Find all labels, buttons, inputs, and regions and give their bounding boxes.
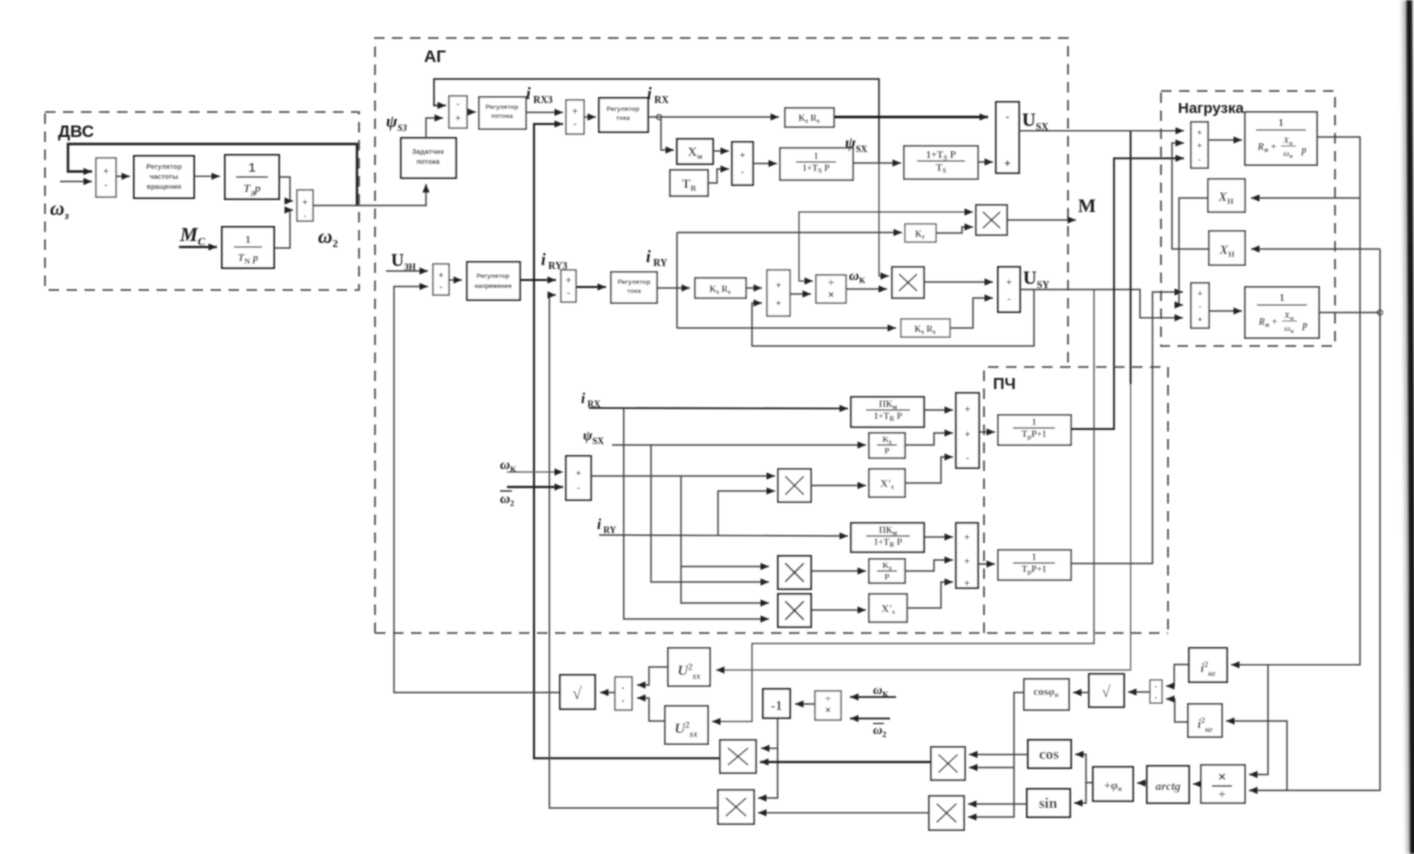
svg-text:p: p [1302, 320, 1308, 331]
svg-text:√: √ [572, 684, 582, 703]
svg-text:+: + [965, 429, 970, 439]
svg-text:1: 1 [1032, 417, 1037, 427]
svg-text:×: × [1218, 769, 1226, 784]
svg-text:+: + [302, 197, 307, 207]
svg-text:ПЧ: ПЧ [993, 376, 1016, 393]
svg-text:потока: потока [416, 159, 439, 166]
svg-text:×: × [825, 705, 830, 715]
svg-text:потока: потока [491, 113, 513, 120]
svg-text:-: - [567, 288, 570, 298]
svg-text:1: 1 [814, 151, 819, 161]
svg-text:напряжения: напряжения [474, 283, 512, 290]
svg-text:+: + [103, 166, 108, 176]
svg-text:ДВС: ДВС [58, 122, 94, 141]
svg-text:-: - [1008, 294, 1011, 304]
svg-text:-: - [966, 453, 969, 463]
svg-text:M: M [1078, 196, 1096, 217]
svg-text:вращения: вращения [147, 184, 182, 191]
svg-text:+: + [740, 150, 745, 160]
svg-text:тока: тока [627, 288, 641, 295]
svg-text:Нагрузка: Нагрузка [1178, 100, 1244, 117]
svg-text:+: + [776, 280, 781, 290]
svg-text:÷: ÷ [1219, 789, 1225, 801]
svg-text:-: - [457, 99, 460, 109]
svg-text:1: 1 [248, 160, 255, 175]
svg-text:1: 1 [1032, 552, 1037, 562]
svg-text:+: + [964, 556, 969, 566]
svg-text:Регулятор: Регулятор [146, 164, 182, 171]
svg-text:+: + [964, 532, 969, 542]
svg-text:1: 1 [245, 234, 251, 246]
svg-text:·: · [622, 683, 626, 695]
svg-text:.: . [304, 209, 307, 219]
svg-text:·: · [1154, 693, 1157, 704]
svg-text:+: + [1004, 158, 1010, 170]
svg-text:+: + [1197, 141, 1202, 150]
svg-text:1: 1 [1278, 117, 1284, 129]
svg-text:+: + [572, 106, 577, 116]
svg-text:+: + [576, 468, 581, 478]
svg-text:частоты: частоты [150, 174, 179, 181]
svg-text:arctg: arctg [1155, 779, 1180, 793]
svg-text:1: 1 [1279, 292, 1285, 304]
svg-text:+: + [965, 404, 970, 414]
svg-text:-: - [577, 483, 580, 493]
svg-text:P: P [884, 446, 889, 456]
svg-text:+: + [455, 113, 460, 123]
svg-text:+: + [438, 270, 443, 280]
svg-text:÷: ÷ [828, 278, 834, 289]
svg-text:-: - [440, 282, 443, 292]
svg-text:Регулятор: Регулятор [607, 106, 640, 113]
svg-text:+: + [1198, 289, 1203, 298]
svg-text:·: · [1154, 682, 1157, 693]
svg-text:Задатчик: Задатчик [412, 149, 444, 156]
svg-text:×: × [828, 290, 834, 301]
svg-text:-: - [741, 167, 744, 177]
svg-text:-: - [1006, 111, 1010, 123]
svg-text:тока: тока [616, 115, 630, 122]
svg-text:·: · [622, 696, 626, 708]
svg-text:cos: cos [1039, 747, 1059, 763]
svg-text:-1: -1 [771, 699, 783, 714]
svg-text:sin: sin [1039, 796, 1058, 812]
svg-text:+: + [1197, 128, 1202, 137]
svg-text:+: + [1006, 277, 1011, 287]
svg-text:-: - [105, 180, 108, 190]
svg-text:+: + [964, 578, 969, 588]
svg-text:-: - [574, 119, 577, 129]
svg-text:+: + [1198, 315, 1203, 324]
svg-text:АГ: АГ [424, 47, 446, 66]
svg-text:p: p [1301, 145, 1307, 156]
svg-text:+: + [566, 275, 571, 285]
svg-text:1+TS P: 1+TS P [926, 150, 956, 162]
svg-text:-: - [1198, 155, 1201, 164]
svg-text:P: P [884, 572, 889, 582]
svg-text:-: - [1199, 302, 1202, 311]
svg-text:+: + [776, 298, 781, 308]
svg-text:Регулятор: Регулятор [477, 273, 510, 280]
svg-text:√: √ [1102, 684, 1111, 701]
svg-text:Регулятор: Регулятор [486, 104, 519, 111]
svg-text:÷: ÷ [826, 694, 831, 704]
svg-text:Регулятор: Регулятор [618, 279, 651, 286]
